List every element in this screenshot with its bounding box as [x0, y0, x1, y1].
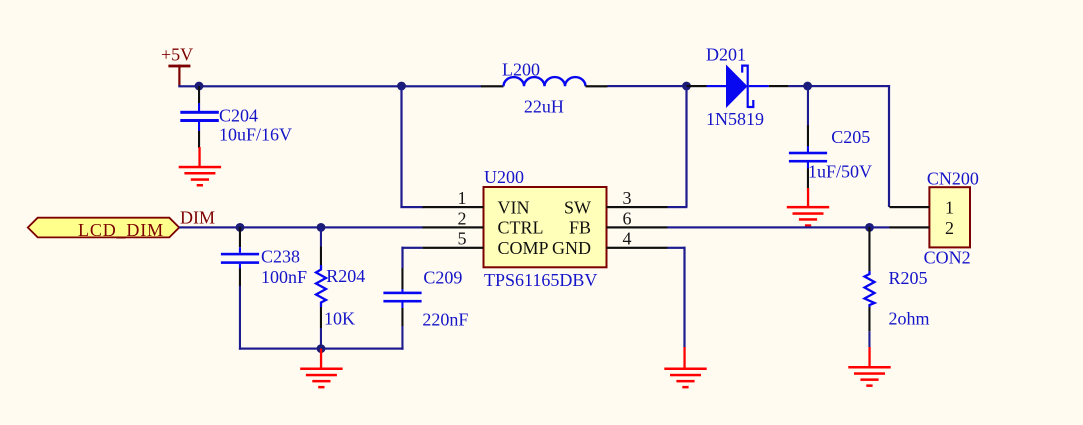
pin 1 VIN of U200 [423, 188, 484, 208]
power symbol +5V [161, 45, 193, 87]
svg-text:CON2: CON2 [924, 248, 971, 268]
resistor R204 [316, 227, 365, 349]
pin 2 CTRL of U200 [423, 208, 484, 228]
ground at R205 [848, 347, 890, 387]
svg-text:2: 2 [458, 208, 467, 228]
svg-text:2ohm: 2ohm [889, 308, 930, 328]
wire D201 to corner and down to CN200 pin 1 [789, 85, 890, 207]
svg-text:FB: FB [569, 218, 591, 238]
svg-text:CN200: CN200 [927, 169, 979, 189]
svg-text:U200: U200 [484, 167, 524, 187]
ground at C205 [787, 188, 829, 227]
svg-text:1: 1 [458, 188, 467, 208]
ground at R204 [300, 349, 342, 389]
wire L200 to SW node [607, 85, 687, 87]
svg-text:CTRL: CTRL [498, 218, 544, 238]
pin 4 GND of U200 [607, 229, 668, 249]
pin 5 COMP of U200 [423, 229, 484, 249]
svg-text:22uH: 22uH [524, 97, 564, 117]
capacitor C204 [180, 86, 292, 148]
svg-text:D201: D201 [706, 45, 746, 65]
junction at VIN branch [397, 82, 406, 91]
svg-text:C205: C205 [831, 127, 870, 147]
svg-text:R204: R204 [326, 266, 365, 286]
svg-text:GND: GND [552, 238, 591, 258]
svg-text:10uF/16V: 10uF/16V [219, 125, 292, 145]
svg-text:C204: C204 [219, 106, 258, 126]
svg-text:100nF: 100nF [261, 267, 307, 287]
pin 6 FB of U200 [607, 208, 668, 228]
junction at SW node [682, 82, 691, 91]
svg-text:COMP: COMP [498, 238, 549, 258]
capacitor C205 [789, 86, 872, 190]
junction at C204 top [195, 82, 204, 91]
ground at C204 [179, 147, 221, 187]
wire GND branch down [667, 247, 685, 348]
svg-text:L200: L200 [502, 60, 540, 80]
diode D201 [687, 45, 789, 130]
pin 2 of CN200 [889, 218, 954, 238]
wire FB net to R205 junction [667, 226, 870, 228]
pin 3 SW of U200 [607, 188, 668, 208]
svg-text:6: 6 [623, 208, 632, 228]
ic U200 [484, 167, 607, 290]
wire SW branch down to pin 3 [667, 86, 687, 208]
svg-text:2: 2 [945, 218, 954, 238]
svg-text:10K: 10K [324, 309, 355, 329]
junction at R204 bottom [317, 344, 326, 353]
svg-text:+5V: +5V [161, 45, 193, 65]
wire junction to CN200 pin 2 [870, 226, 890, 228]
junction at R205 top [865, 223, 874, 232]
svg-text:VIN: VIN [498, 197, 530, 217]
svg-text:C238: C238 [261, 247, 300, 267]
ground at U200 GND [664, 347, 706, 388]
inductor L200 [481, 60, 608, 117]
wire DIM net to pin 2 [179, 226, 423, 228]
junction at R204 top [317, 223, 326, 232]
svg-text:R205: R205 [889, 268, 928, 288]
capacitor C209 [383, 268, 468, 350]
svg-text:SW: SW [564, 197, 591, 217]
svg-text:C209: C209 [423, 268, 462, 288]
pin 1 of CN200 [889, 197, 954, 217]
resistor R205 [865, 227, 930, 347]
svg-text:5: 5 [458, 229, 467, 249]
svg-text:DIM: DIM [180, 208, 215, 228]
svg-text:4: 4 [623, 229, 632, 249]
svg-text:LCD_DIM: LCD_DIM [78, 220, 164, 240]
wire COMP branch [401, 247, 422, 268]
svg-text:220nF: 220nF [422, 310, 468, 330]
svg-text:1N5819: 1N5819 [706, 109, 764, 129]
connector CN200 [924, 169, 979, 268]
port LCD_DIM [28, 218, 179, 240]
wire VIN branch down and to pin 1 [400, 86, 423, 208]
wire bottom net C238 R204 C209 [239, 348, 404, 350]
junction at C238 [236, 223, 245, 232]
wire top net from +5V to L200 [178, 85, 481, 87]
svg-text:1: 1 [945, 197, 954, 217]
svg-text:TPS61165DBV: TPS61165DBV [484, 270, 597, 290]
capacitor C238 [221, 227, 307, 350]
svg-text:1uF/50V: 1uF/50V [808, 162, 872, 182]
svg-text:3: 3 [623, 188, 632, 208]
net label DIM [180, 208, 215, 228]
junction at C205 top [803, 82, 812, 91]
